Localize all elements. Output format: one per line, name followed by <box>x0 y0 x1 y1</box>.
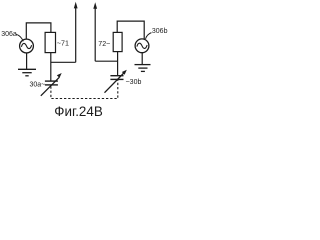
wire <box>50 53 52 81</box>
AC source 306a <box>20 39 34 53</box>
leader 306a <box>16 34 23 41</box>
AC source 306b <box>135 39 149 53</box>
svg-text:306b: 306b <box>152 28 168 35</box>
mechanical coupling dashed link <box>51 80 118 99</box>
ground <box>135 64 151 66</box>
svg-text:30a~: 30a~ <box>30 81 46 88</box>
svg-text:306a: 306a <box>1 31 17 38</box>
variable capacitor 30b <box>110 75 123 77</box>
svg-text:~30b: ~30b <box>126 79 142 86</box>
resistor 72 <box>113 32 122 51</box>
svg-text:~71: ~71 <box>57 40 69 48</box>
signal arrow <box>94 8 96 61</box>
leader 306b <box>146 33 152 39</box>
variable capacitor 30a <box>45 80 58 82</box>
wire <box>117 52 119 76</box>
wire <box>141 53 143 64</box>
svg-text:72~: 72~ <box>98 40 110 48</box>
svg-text:Фиг.24В: Фиг.24В <box>54 104 103 119</box>
resistor 71 <box>45 32 55 52</box>
ground <box>26 53 28 69</box>
signal arrow <box>75 8 77 63</box>
wire <box>117 21 144 39</box>
wire <box>26 23 51 39</box>
wire <box>51 61 76 63</box>
wire <box>95 60 117 62</box>
